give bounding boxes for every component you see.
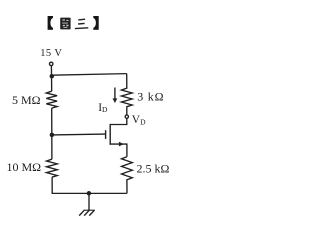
svg-text:VD: VD (132, 114, 146, 126)
transistor Q1 source arrow (119, 142, 124, 147)
transistor Q1 channel (109, 124, 111, 145)
title character 圖 (60, 18, 70, 30)
resistor 5 MΩ (46, 91, 57, 108)
title bracket right 】 (93, 16, 98, 30)
transistor Q1 gate wire (52, 133, 106, 136)
resistor 10 MΩ (47, 159, 58, 177)
supply terminal circle (49, 62, 53, 66)
svg-text:5 MΩ: 5 MΩ (12, 93, 41, 107)
wire supply stub (50, 66, 52, 92)
node dot ground junction (87, 191, 92, 196)
transistor Q1 source wire (110, 144, 127, 157)
node dot top-left junction (50, 74, 55, 79)
resistor 2.5 kΩ (122, 157, 133, 194)
wire left bottom (51, 177, 53, 193)
wire drain lead (110, 118, 127, 124)
node dot gate junction (50, 133, 55, 138)
ground stub (88, 193, 90, 210)
wire left mid (51, 108, 53, 159)
current arrow ID (114, 88, 116, 100)
svg-text:ID: ID (98, 102, 108, 114)
title bracket left 【 (48, 16, 53, 30)
svg-text:3 kΩ: 3 kΩ (137, 89, 164, 103)
resistor 3 kΩ (121, 74, 132, 115)
title character 三 (75, 19, 88, 28)
svg-text:2.5 kΩ: 2.5 kΩ (137, 161, 170, 175)
svg-text:10 MΩ: 10 MΩ (7, 160, 42, 174)
ground symbol (79, 210, 95, 215)
transistor Q1 gate bar (105, 130, 107, 139)
wire bottom rail (52, 192, 127, 194)
wire top rail (52, 74, 127, 76)
node VD terminal circle (125, 115, 128, 118)
svg-text:15 V: 15 V (40, 48, 62, 59)
